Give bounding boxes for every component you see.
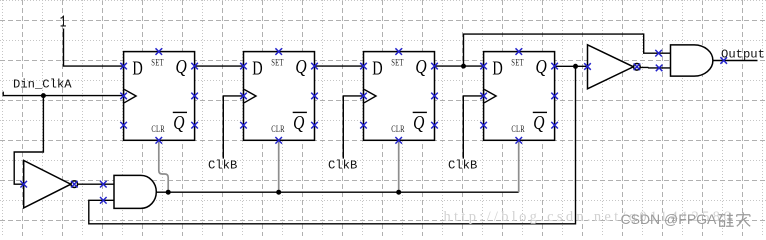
svg-text:Q: Q [295, 55, 306, 77]
svg-text:Q: Q [415, 55, 426, 77]
svg-text:D: D [252, 56, 262, 79]
svg-text:ClkB: ClkB [448, 159, 477, 173]
svg-text:CLR: CLR [391, 124, 405, 134]
svg-text:CLR: CLR [271, 124, 285, 134]
svg-text:D: D [372, 56, 382, 79]
svg-text:SET: SET [391, 57, 403, 67]
svg-text:Q: Q [293, 111, 304, 133]
svg-text:ClkB: ClkB [208, 159, 237, 173]
svg-text:Q: Q [413, 111, 424, 133]
svg-text:CLR: CLR [511, 124, 525, 134]
svg-text:1: 1 [60, 14, 67, 33]
svg-text:Din_ClkA: Din_ClkA [13, 77, 72, 91]
svg-text:D: D [492, 56, 502, 79]
svg-text:D: D [132, 56, 142, 79]
svg-text:Q: Q [536, 55, 547, 77]
svg-text:SET: SET [511, 57, 523, 67]
svg-text:Q: Q [173, 111, 184, 133]
svg-text:CSDN @FPGA: CSDN @FPGA [621, 211, 718, 227]
svg-text:Q: Q [533, 111, 544, 133]
svg-text:ClkB: ClkB [328, 159, 357, 173]
svg-text:SET: SET [271, 57, 283, 67]
svg-text:SET: SET [151, 57, 163, 67]
svg-text:Q: Q [176, 55, 187, 77]
svg-text:Output: Output [721, 48, 765, 62]
svg-text:CLR: CLR [151, 124, 165, 134]
